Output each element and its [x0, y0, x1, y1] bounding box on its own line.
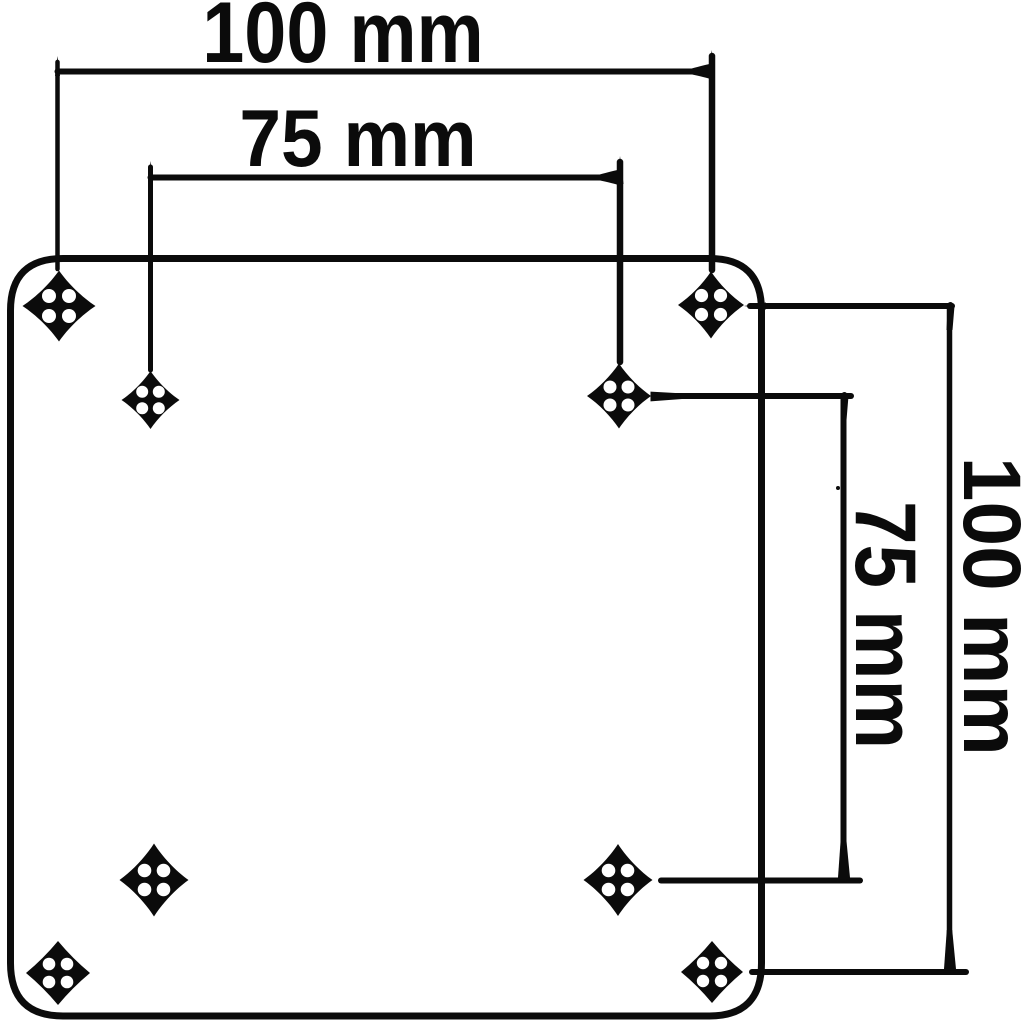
- flare at right end of 75mm top line: [598, 170, 620, 186]
- flare at top of 100mm right vertical: [947, 302, 955, 330]
- hole bottom-right corner: [681, 941, 743, 1003]
- dim line 100mm right horizontal bottom: [752, 969, 966, 975]
- flare at right end of 100mm top line: [690, 64, 712, 80]
- foot flare of 100mm right vertical: [944, 930, 956, 969]
- dim tick 100mm top right: [709, 56, 716, 270]
- svg-text:75 mm: 75 mm: [837, 501, 932, 749]
- dim line 100mm right vertical: [947, 307, 953, 965]
- dim line 75mm right horizontal top: [654, 393, 851, 399]
- plate outline: [11, 259, 762, 1017]
- svg-text:100 mm: 100 mm: [946, 457, 1024, 756]
- dim tick 75mm top right: [617, 162, 624, 362]
- taper tip of 75mm top left tick: [148, 161, 153, 182]
- ink speck: [836, 486, 840, 490]
- taper tip of 100mm top left tick: [55, 56, 60, 76]
- dim tick 100mm top left: [55, 62, 60, 269]
- hole inner top-right: [587, 364, 651, 429]
- hole top-left corner: [23, 271, 96, 342]
- pointed left end of 75mm right top line: [651, 392, 683, 402]
- dim line 100mm right horizontal top: [750, 303, 952, 309]
- hole bottom-left corner: [26, 941, 90, 1005]
- flare at top of 75mm right vertical: [841, 392, 849, 420]
- taper tip of 75mm top right tick: [617, 156, 624, 184]
- dim line 75mm right vertical: [841, 397, 847, 873]
- dim line 75mm right horizontal bottom: [661, 878, 860, 884]
- pointed left end of 100mm right top line: [744, 303, 766, 310]
- lens bulge of 75mm bottom line: [658, 878, 860, 883]
- hole top-right corner: [678, 272, 744, 339]
- dim line 75mm top horizontal: [151, 175, 621, 181]
- lens bulge of 100mm bottom line: [749, 969, 967, 975]
- foot flare of 75mm right vertical: [838, 838, 850, 878]
- hole inner bottom-right: [584, 844, 653, 916]
- dim tick 75mm top left: [148, 167, 153, 370]
- hole inner top-left: [122, 371, 180, 429]
- dim line 100mm top horizontal: [58, 69, 713, 75]
- svg-text:100 mm: 100 mm: [202, 0, 483, 81]
- svg-text:75 mm: 75 mm: [239, 92, 476, 183]
- taper tip of 100mm top right tick: [709, 50, 716, 78]
- hole inner bottom-left: [120, 844, 189, 917]
